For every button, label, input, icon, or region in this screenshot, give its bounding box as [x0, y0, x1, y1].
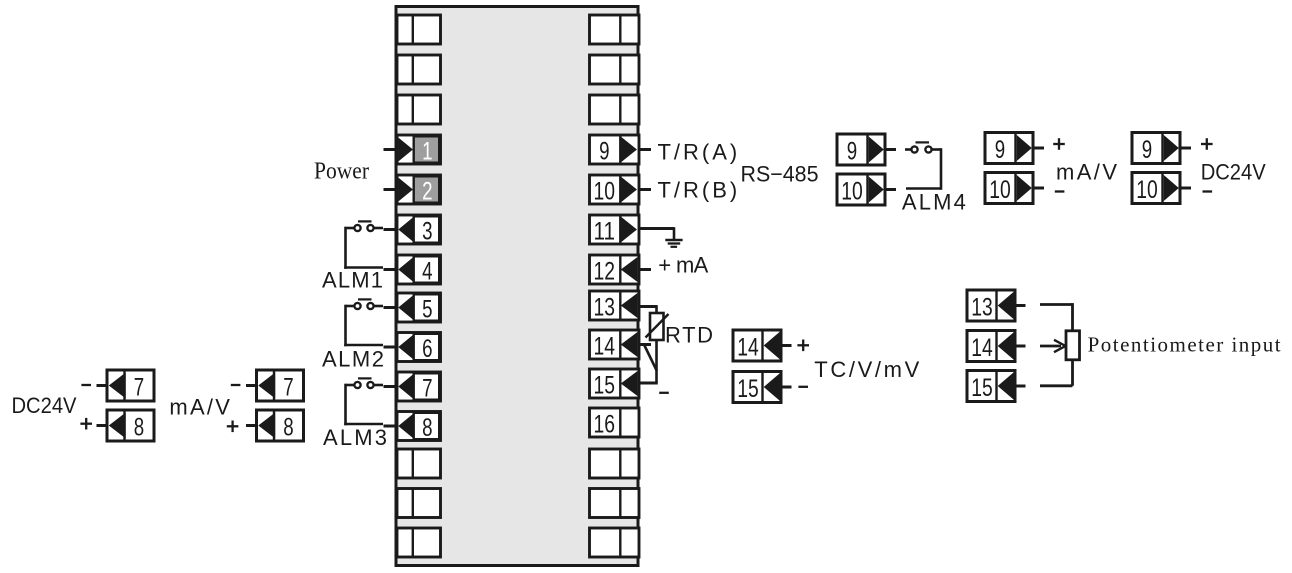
wire pin 14 to RTD common — [644, 345, 657, 372]
unused terminal (right row 13) — [590, 528, 640, 557]
wire stub pin 7 — [384, 385, 398, 388]
wire stub pin 2 — [384, 188, 398, 191]
svg-text:8: 8 — [422, 414, 432, 442]
svg-text:15: 15 — [737, 375, 759, 403]
svg-text:DC24V: DC24V — [1201, 160, 1266, 185]
terminal 15 — [590, 369, 640, 398]
polarity plus (pin 8) — [227, 425, 239, 427]
polarity minus (pin 7) — [81, 384, 91, 386]
terminal 9 (mA/V option) — [985, 133, 1033, 164]
terminal 9 (ALM4 option) — [837, 134, 885, 165]
RTD sensor (pins 13-15) — [639, 305, 657, 308]
wire stub pin 3 — [384, 228, 398, 231]
svg-text:15: 15 — [971, 374, 993, 402]
relay contact ALM2 (pins 5-6) — [346, 305, 355, 308]
svg-text:+ mA: + mA — [658, 253, 708, 278]
terminal 14 (potentiometer option) — [967, 331, 1015, 362]
svg-text:T/R(A): T/R(A) — [658, 140, 738, 165]
wire stub pin 6 — [384, 346, 398, 349]
svg-text:2: 2 — [422, 178, 432, 206]
terminal 7 (mA/V option) — [257, 370, 304, 401]
svg-text:9: 9 — [847, 138, 857, 166]
svg-text:13: 13 — [971, 294, 993, 322]
wire stub pin 14 — [639, 343, 652, 346]
svg-text:DC24V: DC24V — [12, 393, 77, 418]
terminal 14 (TC option) — [733, 330, 781, 361]
svg-text:10: 10 — [989, 176, 1011, 204]
wire stub pin 4 — [384, 268, 398, 271]
wire stub pin 8 — [384, 425, 398, 428]
svg-text:14: 14 — [971, 334, 993, 362]
wire stub pin 9 — [639, 148, 652, 151]
terminal 7 — [397, 372, 441, 401]
device body (terminal block) — [396, 7, 638, 566]
terminal 15 (potentiometer option) — [967, 371, 1015, 402]
svg-text:10: 10 — [1136, 176, 1158, 204]
terminal 9 — [590, 135, 640, 164]
svg-text:1: 1 — [422, 138, 432, 166]
terminal 6 — [397, 333, 441, 362]
svg-text:4: 4 — [422, 258, 432, 286]
polarity plus (pin 9) — [1053, 143, 1065, 145]
terminal 8 — [397, 412, 441, 441]
svg-text:RS−485: RS−485 — [741, 162, 819, 187]
unused terminal (left row 13) — [397, 528, 441, 557]
svg-text:ALM2: ALM2 — [322, 347, 384, 372]
polarity minus (pin 15) — [798, 386, 808, 388]
potentiometer element — [1040, 303, 1073, 306]
polarity minus (pin 15) — [659, 392, 669, 394]
terminal 9 (DC24V option) — [1132, 133, 1180, 164]
potentiometer wiper arrow (pin 14) — [1040, 345, 1061, 348]
unused terminal (left row 0) — [397, 15, 441, 44]
terminal 3 — [397, 215, 441, 244]
terminal 1 — [397, 135, 441, 164]
polarity plus (pin 8) — [80, 423, 92, 425]
svg-text:9: 9 — [599, 138, 609, 166]
svg-text:RTD: RTD — [665, 323, 713, 348]
unused terminal (right row 2) — [590, 95, 640, 124]
svg-text:8: 8 — [134, 414, 144, 442]
polarity minus (pin 10) — [1203, 190, 1213, 192]
svg-text:9: 9 — [1142, 136, 1152, 164]
svg-text:11: 11 — [594, 218, 616, 246]
terminal 7 (DC24V option) — [107, 370, 154, 401]
terminal 13 — [590, 291, 640, 320]
svg-text:Power: Power — [314, 159, 369, 185]
relay contact ALM1 (pins 3-4) — [346, 227, 355, 230]
wire stub pin 10 — [639, 188, 652, 191]
terminal 5 — [397, 293, 441, 322]
terminal 10 (DC24V option) — [1132, 173, 1180, 204]
terminal 8 (DC24V option) — [107, 410, 154, 441]
svg-text:10: 10 — [594, 178, 616, 206]
relay contact ALM3 (pins 7-8) — [346, 384, 355, 387]
terminal 4 — [397, 255, 441, 284]
svg-text:8: 8 — [283, 414, 293, 442]
polarity minus (pin 7) — [231, 384, 241, 386]
svg-text:3: 3 — [422, 218, 432, 246]
svg-text:15: 15 — [594, 372, 616, 400]
terminal 16 — [590, 408, 640, 437]
svg-text:16: 16 — [594, 411, 616, 439]
wire stub pin 12 — [639, 268, 652, 271]
polarity minus (pin 10) — [1055, 190, 1065, 192]
svg-text:ALM4: ALM4 — [902, 190, 966, 215]
svg-text:10: 10 — [841, 178, 863, 206]
unused terminal (left row 1) — [397, 55, 441, 84]
svg-text:T/R(B): T/R(B) — [658, 178, 738, 203]
svg-text:7: 7 — [283, 374, 293, 402]
unused terminal (left row 2) — [397, 95, 441, 124]
terminal 11 — [590, 215, 640, 244]
svg-text:TC/V/mV: TC/V/mV — [814, 357, 919, 382]
unused terminal (right row 11) — [590, 449, 640, 478]
svg-text:12: 12 — [594, 258, 616, 286]
polarity plus (pin 14) — [797, 344, 809, 346]
svg-text:7: 7 — [134, 374, 144, 402]
svg-text:14: 14 — [594, 333, 616, 361]
unused terminal (left row 11) — [397, 449, 441, 478]
ground symbol (pin 11) — [639, 227, 675, 230]
svg-text:13: 13 — [594, 294, 616, 322]
unused terminal (right row 0) — [590, 15, 640, 44]
wire stub pin 5 — [384, 306, 398, 309]
terminal 10 (ALM4 option) — [837, 174, 885, 205]
unused terminal (right row 1) — [590, 55, 640, 84]
unused terminal (right row 12) — [590, 489, 640, 518]
svg-text:9: 9 — [995, 136, 1005, 164]
svg-text:mA/V: mA/V — [169, 395, 230, 420]
svg-text:mA/V: mA/V — [1056, 160, 1117, 185]
terminal 8 (mA/V option) — [257, 410, 304, 441]
unused terminal (left row 12) — [397, 489, 441, 518]
svg-text:Potentiometer input: Potentiometer input — [1088, 333, 1281, 357]
polarity plus (pin 9) — [1201, 143, 1213, 145]
wire stub pin 1 — [384, 148, 398, 151]
svg-text:5: 5 — [422, 296, 432, 324]
terminal 14 — [590, 330, 640, 359]
terminal 2 — [397, 175, 441, 204]
svg-text:14: 14 — [737, 334, 759, 362]
terminal 12 — [590, 255, 640, 284]
svg-text:7: 7 — [422, 375, 432, 403]
terminal 13 (potentiometer option) — [967, 290, 1015, 321]
terminal 10 — [590, 175, 640, 204]
svg-text:6: 6 — [422, 335, 432, 363]
relay contact ALM4 (pins 9-10) — [905, 148, 911, 151]
terminal 15 (TC option) — [733, 372, 781, 403]
svg-text:ALM3: ALM3 — [323, 425, 387, 450]
terminal 10 (mA/V option) — [985, 173, 1033, 204]
svg-text:ALM1: ALM1 — [322, 268, 383, 293]
